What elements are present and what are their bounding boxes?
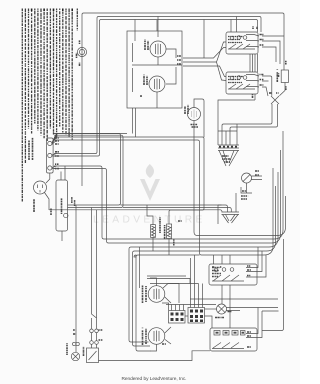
svg-text:Rendered by LeadVenture, Inc.: Rendered by LeadVenture, Inc. [122,376,187,382]
